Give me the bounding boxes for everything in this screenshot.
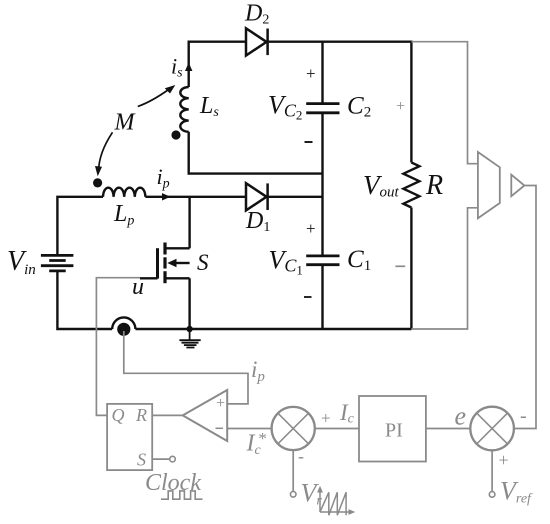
wire <box>135 328 411 330</box>
coupling dot secondary <box>171 130 180 139</box>
terminal clock <box>170 456 176 462</box>
svg-text:+: + <box>216 395 225 412</box>
svg-text:is: is <box>171 54 183 81</box>
terminal Vref <box>489 492 495 498</box>
junction <box>186 326 192 332</box>
svg-text:R: R <box>135 405 147 425</box>
minus C1 <box>304 296 312 298</box>
mutual arrow to Lp <box>95 132 113 176</box>
inductor Lp <box>103 188 145 197</box>
wire <box>411 208 477 329</box>
svg-text:VC1: VC1 <box>269 245 303 277</box>
svg-text:+: + <box>306 64 316 83</box>
svg-text:+: + <box>499 450 509 470</box>
resistor R <box>403 163 419 208</box>
wire <box>227 428 271 430</box>
wire <box>145 196 246 198</box>
wire <box>491 450 493 491</box>
minus C2 <box>305 141 313 143</box>
svg-text:-: - <box>520 405 527 427</box>
voltage sensor <box>478 152 500 218</box>
wire <box>152 458 169 460</box>
wire <box>152 414 183 416</box>
wire <box>292 450 294 491</box>
svg-text:C1: C1 <box>347 246 371 274</box>
wire <box>124 331 248 404</box>
svg-text:M: M <box>114 110 137 136</box>
buffer <box>511 175 524 197</box>
ground <box>179 329 200 348</box>
wire <box>315 428 359 430</box>
svg-text:Ic: Ic <box>339 400 355 427</box>
svg-text:PI: PI <box>385 420 403 442</box>
inductor Ls <box>180 87 188 132</box>
transistor S (MOSFET) <box>140 197 190 329</box>
wire <box>410 208 412 330</box>
svg-text:+: + <box>321 409 331 428</box>
wire <box>321 42 323 103</box>
coupling dot primary <box>93 178 102 187</box>
svg-text:D1: D1 <box>245 208 270 235</box>
battery Vin <box>41 255 74 271</box>
capacitor C1 <box>306 256 339 265</box>
svg-text:+: + <box>306 219 316 238</box>
svg-text:ip: ip <box>157 164 170 192</box>
wire <box>411 42 477 164</box>
sawtooth waveform <box>317 486 355 515</box>
flip-flop <box>107 404 152 470</box>
svg-text:D2: D2 <box>244 1 269 28</box>
diode D2 <box>246 28 268 55</box>
wire <box>321 114 323 255</box>
wire <box>268 196 323 198</box>
clock waveform <box>161 491 203 499</box>
current arrow is <box>185 63 192 72</box>
wire <box>514 186 536 429</box>
diode D1 <box>246 183 268 210</box>
minus Vout <box>395 265 405 267</box>
svg-text:Q: Q <box>112 405 125 425</box>
svg-text:VC2: VC2 <box>268 91 302 123</box>
svg-text:S: S <box>197 250 209 275</box>
current sensor <box>112 317 135 336</box>
comparator <box>183 390 228 441</box>
svg-text:Lp: Lp <box>113 201 134 229</box>
mutual arrow to Ls <box>138 85 176 107</box>
summing junction E <box>470 407 514 451</box>
wire <box>189 132 323 174</box>
current arrow ip <box>162 193 171 200</box>
svg-text:Vref: Vref <box>500 477 533 507</box>
svg-text:-: - <box>298 446 304 466</box>
wire <box>321 266 323 329</box>
wire <box>189 42 412 163</box>
svg-text:e: e <box>455 402 467 431</box>
terminal Vr <box>290 492 296 498</box>
svg-text:ip: ip <box>251 357 265 385</box>
svg-text:S: S <box>137 450 146 470</box>
wire <box>57 197 103 255</box>
block PI <box>359 396 426 462</box>
svg-text:Ls: Ls <box>199 93 219 120</box>
wire <box>57 271 112 329</box>
multiplier M1 <box>272 407 315 450</box>
svg-text:Vr: Vr <box>301 479 323 509</box>
wire <box>426 428 470 430</box>
svg-text:Vout: Vout <box>363 170 400 201</box>
svg-text:Vin: Vin <box>7 246 36 278</box>
svg-text:C2: C2 <box>347 93 371 121</box>
svg-text:*: * <box>258 429 267 448</box>
wire <box>96 278 140 416</box>
svg-text:R: R <box>425 170 443 201</box>
svg-text:+: + <box>396 98 405 115</box>
capacitor C2 <box>306 104 339 113</box>
